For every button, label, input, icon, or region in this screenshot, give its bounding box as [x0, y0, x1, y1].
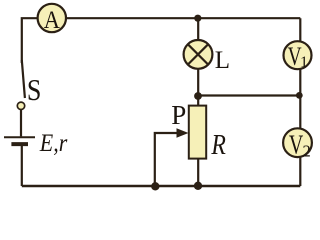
wire: bottom horizontal [22, 185, 301, 188]
voltmeter V2 [283, 128, 312, 157]
wire: rheostat leads vertical [197, 96, 199, 186]
wire: middle horizontal [198, 94, 300, 96]
wire: battery bottom to bottom-left corner [21, 146, 23, 186]
switch S blade [22, 60, 25, 98]
ammeter A [38, 4, 66, 32]
svg-text:1: 1 [300, 54, 308, 71]
svg-text:2: 2 [303, 142, 311, 161]
node: mid-left junction dot [194, 92, 202, 100]
node: bottom rheostat junction dot [194, 182, 202, 190]
svg-text:S: S [27, 72, 42, 107]
wire: switch circle to battery top plate [20, 110, 22, 137]
node: top junction dot [194, 15, 201, 22]
svg-text:P: P [171, 100, 186, 130]
wire: top horizontal from left corner to top-right corner [22, 18, 301, 63]
slider P arrowhead [177, 128, 189, 138]
wire: right vertical from top-right corner to bottom-right corner [299, 18, 301, 186]
svg-text:A: A [44, 7, 60, 34]
wire: lamp branch vertical [197, 18, 199, 96]
wire: slider lead L-shape [155, 133, 178, 186]
battery short thick plate [11, 142, 28, 146]
battery long plate [4, 136, 35, 138]
svg-text:V: V [289, 129, 304, 159]
svg-text:E,r: E,r [39, 130, 68, 157]
switch S contact circle [17, 102, 24, 109]
node: bottom slider junction dot [151, 182, 159, 190]
voltmeter V1 [284, 41, 312, 69]
node: mid-right junction dot [296, 92, 303, 99]
lamp L cross [188, 44, 208, 64]
svg-text:R: R [211, 130, 226, 161]
rheostat R body [189, 106, 206, 159]
svg-text:L: L [215, 47, 230, 74]
lamp L circle [184, 40, 213, 69]
